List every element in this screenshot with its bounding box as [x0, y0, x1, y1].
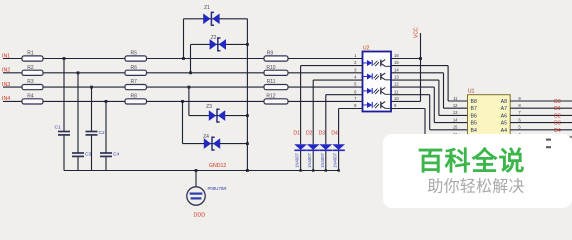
svg-text:U2: U2: [363, 45, 370, 51]
power VCC: [414, 27, 421, 101]
svg-text:16: 16: [394, 53, 399, 58]
svg-text:D1: D1: [293, 130, 300, 136]
svg-text:A8: A8: [501, 99, 507, 105]
wire cap branch C3: [77, 73, 79, 171]
svg-text:R6: R6: [131, 65, 138, 71]
junction dots rows to cap branches: [63, 57, 108, 103]
svg-text:D2: D2: [554, 113, 561, 119]
capacitor C1: [55, 124, 71, 135]
svg-text:D2: D2: [306, 130, 313, 136]
diode D1 1N4007: [294, 144, 307, 150]
watermark box: [383, 134, 572, 208]
resistor R12: [264, 93, 288, 104]
resistor R3: [22, 79, 43, 90]
TVS diode Z2: [210, 35, 226, 51]
resistor R9: [264, 51, 288, 62]
wire opto pin 6 to diode D3: [326, 95, 363, 171]
optocoupler U2 box: [363, 52, 392, 112]
svg-text:C3: C3: [85, 152, 91, 158]
svg-text:A6: A6: [501, 113, 507, 119]
svg-text:C1: C1: [55, 124, 61, 130]
junction diode rail D4: [337, 169, 339, 171]
pin numbers U2 left: [354, 53, 357, 108]
junction diode rail D1: [299, 169, 301, 171]
wire U1 right row 2: [510, 107, 572, 109]
svg-text:P08U75R: P08U75R: [208, 186, 227, 191]
TVS diode Z1: [203, 5, 219, 25]
capacitor C3: [72, 152, 91, 158]
TVS diode Z4: [203, 134, 220, 150]
U1 row B1/A1: [453, 146, 522, 155]
wire to ground symbol: [195, 171, 197, 188]
svg-text:VCC: VCC: [414, 27, 420, 38]
U1 row B2/A2: [453, 139, 522, 148]
svg-text:10: 10: [394, 96, 399, 101]
wire U1 right row 6: [510, 136, 572, 138]
wire Z3 branch: [189, 87, 248, 116]
wire cap branch C4: [105, 101, 107, 170]
svg-text:1N4007: 1N4007: [320, 152, 325, 167]
wire U1 right row 8: [510, 150, 572, 152]
resistor R2: [22, 65, 43, 76]
wire Z2 branch: [191, 44, 248, 72]
junction diode rail D2: [312, 169, 314, 171]
wire U1 right row 3: [510, 114, 572, 116]
svg-text:1N4007: 1N4007: [295, 152, 300, 167]
wire opto pin 11 to U1: [391, 95, 468, 130]
svg-text:D0: D0: [554, 99, 561, 105]
svg-text:百科全说: 百科全说: [417, 146, 525, 176]
resistor R1: [22, 51, 43, 62]
svg-text:U1: U1: [468, 89, 475, 95]
wire row 2: [3, 72, 363, 74]
IC U1 box: [468, 95, 511, 159]
svg-text:D1: D1: [554, 106, 561, 112]
svg-text:GND12: GND12: [209, 163, 226, 169]
resistor R5: [125, 51, 147, 62]
wire cap branch C2: [91, 87, 93, 170]
capacitor C2: [86, 130, 105, 136]
power ground symbol: [187, 187, 205, 205]
diode D3 1N4007: [319, 144, 332, 150]
wire U1 right row 7: [510, 143, 572, 145]
svg-text:13: 13: [453, 110, 458, 115]
svg-text:R1: R1: [27, 51, 34, 57]
resistor R11: [264, 79, 288, 90]
junction rail/gnd: [195, 169, 198, 172]
capacitor C4: [100, 152, 119, 158]
diode D4 1N4007: [332, 144, 345, 150]
wire GND12 rail: [64, 170, 340, 172]
U1 row B4/A4: [453, 125, 522, 134]
svg-text:11: 11: [453, 96, 458, 101]
wire row 1: [3, 58, 363, 60]
wire opto pin16 to VCC: [391, 58, 421, 60]
junction row tap Z2: [189, 71, 192, 74]
wire opto pin 13 to U1: [391, 80, 468, 115]
junction row tap Z3: [188, 86, 191, 89]
svg-text:R4: R4: [27, 93, 34, 99]
wire opto pin 9 to U1: [391, 109, 468, 138]
wire U1 right row 5: [510, 129, 572, 131]
opto channel 4 LED + transistor: [363, 102, 392, 109]
U1 row B6/A6: [453, 110, 522, 119]
svg-text:B6: B6: [471, 113, 477, 119]
svg-text:12: 12: [394, 82, 399, 87]
svg-text:D3: D3: [319, 130, 326, 136]
wire row 3: [3, 86, 363, 88]
svg-text:R8: R8: [131, 93, 138, 99]
wire U1 right row 1: [510, 100, 572, 102]
svg-text:A4: A4: [501, 128, 507, 134]
svg-text:R7: R7: [131, 79, 138, 85]
svg-text:D4: D4: [331, 130, 338, 136]
svg-text:Z4: Z4: [203, 134, 209, 140]
watermark dashes: [546, 139, 551, 141]
resistor R8: [125, 93, 147, 104]
svg-text:R2: R2: [27, 65, 34, 71]
svg-text:1N4007: 1N4007: [333, 152, 338, 167]
wire opto pin 12 to U1: [391, 87, 468, 123]
svg-text:B4: B4: [471, 128, 477, 134]
svg-text:D3: D3: [554, 121, 561, 127]
svg-text:B7: B7: [471, 106, 477, 112]
svg-text:12: 12: [453, 103, 458, 108]
junctions on right vertical: [246, 43, 249, 172]
svg-text:R12: R12: [266, 93, 275, 99]
svg-text:14: 14: [453, 117, 458, 122]
svg-text:C4: C4: [113, 152, 119, 158]
svg-text:助你轻松解决: 助你轻松解决: [427, 178, 524, 196]
wire opto pin10 to VCC: [391, 100, 421, 102]
resistor R4: [22, 93, 43, 104]
svg-text:13: 13: [394, 75, 399, 80]
wire opto pin 4 to diode D2: [313, 80, 362, 170]
svg-text:Z3: Z3: [206, 104, 212, 110]
svg-text:15: 15: [453, 125, 458, 130]
TVS diode Z3: [206, 104, 225, 122]
junction row tap Z4: [181, 100, 184, 103]
wire U1 right row 4: [510, 122, 572, 124]
svg-text:A5: A5: [501, 121, 507, 127]
svg-text:R5: R5: [131, 51, 138, 57]
pin numbers U2 right: [394, 53, 399, 108]
wire row 4: [3, 100, 363, 102]
svg-text:A7: A7: [501, 106, 507, 112]
wire opto pin 14 to U1: [391, 73, 468, 108]
svg-text:1N4007: 1N4007: [307, 152, 312, 167]
svg-text:B8: B8: [471, 99, 477, 105]
wire U1 left stubs hidden rows: [458, 144, 468, 151]
svg-text:D4: D4: [554, 128, 561, 134]
wire Z1 branch: [184, 19, 248, 59]
opto channel 2 LED + transistor: [363, 73, 392, 80]
svg-text:R9: R9: [267, 51, 274, 57]
svg-text:14: 14: [394, 67, 399, 72]
svg-text:15: 15: [394, 60, 399, 65]
wire opto pin 2 to diode D1: [301, 66, 363, 171]
svg-text:R11: R11: [267, 79, 276, 85]
U1 row B8/A8: [453, 96, 521, 105]
wire Z4 branch: [183, 101, 248, 143]
svg-text:DDD: DDD: [194, 213, 206, 219]
resistor R6: [125, 65, 147, 76]
svg-text:R10: R10: [266, 65, 275, 71]
resistor R10: [264, 65, 288, 76]
resistor R7: [125, 79, 147, 90]
junction diode rail D3: [325, 169, 327, 171]
svg-text:R3: R3: [27, 79, 34, 85]
U1 row B3/A3: [453, 132, 522, 141]
diode D2 1N4007: [307, 144, 320, 150]
wire cap branch C1: [63, 59, 65, 171]
junction VCC pin16: [419, 57, 422, 60]
U1 row B5/A5: [453, 117, 522, 126]
svg-text:C2: C2: [99, 130, 105, 136]
U1 row B7/A7: [453, 103, 522, 112]
svg-text:B5: B5: [471, 121, 477, 127]
wire opto pin 8 to diode D4: [339, 109, 363, 171]
junction row tap Z1: [182, 57, 185, 60]
opto channel 3 LED + transistor: [363, 88, 392, 95]
svg-text:Z1: Z1: [204, 5, 210, 11]
svg-text:Z2: Z2: [211, 35, 217, 41]
opto channel 1 LED + transistor: [363, 60, 392, 67]
svg-text:11: 11: [394, 89, 399, 94]
wire opto pin 15 to U1: [391, 66, 468, 101]
wire Z bank right vertical: [246, 19, 248, 171]
